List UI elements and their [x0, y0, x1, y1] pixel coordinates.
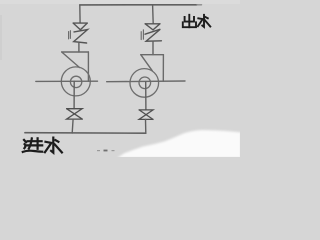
- wire: branch 2 riser from header: [152, 5, 155, 24]
- wire: outlet header fading right end: [197, 4, 202, 6]
- flexible joint F2 (zigzag): [145, 29, 161, 41]
- glyph 进: [28, 140, 42, 142]
- pump P1 volute flag: [62, 52, 89, 81]
- background wash: [0, 0, 240, 157]
- wire: branch 1 riser from header: [79, 5, 81, 23]
- glyph 水: [51, 138, 53, 153]
- glyph 出: [188, 15, 190, 22]
- label 进水 (inlet water) drawn as strokes: [23, 138, 62, 153]
- pump P2 inner circle: [139, 77, 151, 89]
- check valve V1 (triangle): [73, 23, 87, 30]
- wire: outlet header pipe (top): [80, 4, 197, 6]
- faint specks bottom middle: [97, 150, 115, 152]
- wire: pump P2 suction drop: [145, 82, 147, 110]
- wire: stub valve V2 to pump P2 flag: [152, 41, 154, 54]
- pump P1 outer circle: [61, 67, 90, 96]
- glyph 水: [202, 15, 204, 27]
- wire: GV2 to inlet header elbow: [145, 119, 147, 133]
- gauge tick marks left of F1: [69, 31, 71, 39]
- wire: pump P1 suction drop: [73, 81, 75, 108]
- wire: pump P1 horizontal crosshair: [36, 80, 98, 82]
- check valve V2 (triangle): [145, 24, 160, 30]
- pump P2 volute flag: [141, 55, 164, 82]
- gate valve GV2 (bowtie) under pump P2: [139, 110, 153, 120]
- wire: GV1 to inlet header: [71, 119, 74, 133]
- flexible joint F1 (zigzag): [74, 30, 88, 44]
- wire: inlet header pipe (bottom): [25, 132, 146, 135]
- white patch bottom-right: [117, 130, 241, 158]
- wire: stub valve V1 to pump P1 flag: [78, 43, 80, 52]
- gauge tick marks left of F2: [141, 30, 143, 40]
- wire: pump P2 horizontal crosshair: [107, 80, 185, 83]
- pump P2 outer circle: [130, 69, 159, 98]
- pump P1 inner circle: [70, 76, 81, 87]
- label 出水 (outlet water) drawn as strokes: [183, 15, 211, 27]
- gate valve GV1 (bowtie) under pump P1: [67, 109, 83, 119]
